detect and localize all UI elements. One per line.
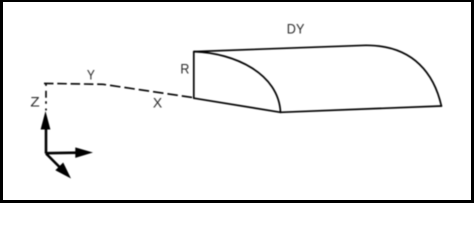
wire left quarter-circle arc of cross-section [194,52,281,113]
wire left bottom edge along X [194,98,281,112]
wire front bottom edge along Y [281,106,442,112]
wire dashed X axis [103,84,193,97]
axis triad X arrow (diagonal) [46,154,71,179]
svg-text:DY: DY [287,20,305,36]
wire left vertical edge (radius R edge) [193,52,195,99]
svg-text:Y: Y [87,67,96,83]
wire top edge of solid (DY direction) [194,45,366,51]
axis triad Z arrow [41,111,51,154]
svg-text:R: R [180,60,189,76]
svg-text:Z: Z [30,94,40,110]
svg-text:X: X [153,95,163,111]
wire dashed Z axis [45,83,47,110]
wire right quarter-circle arc of far cross-section [366,45,441,106]
axis triad Y arrow (horizontal) [46,147,93,158]
wire dashed Y axis [44,82,103,85]
